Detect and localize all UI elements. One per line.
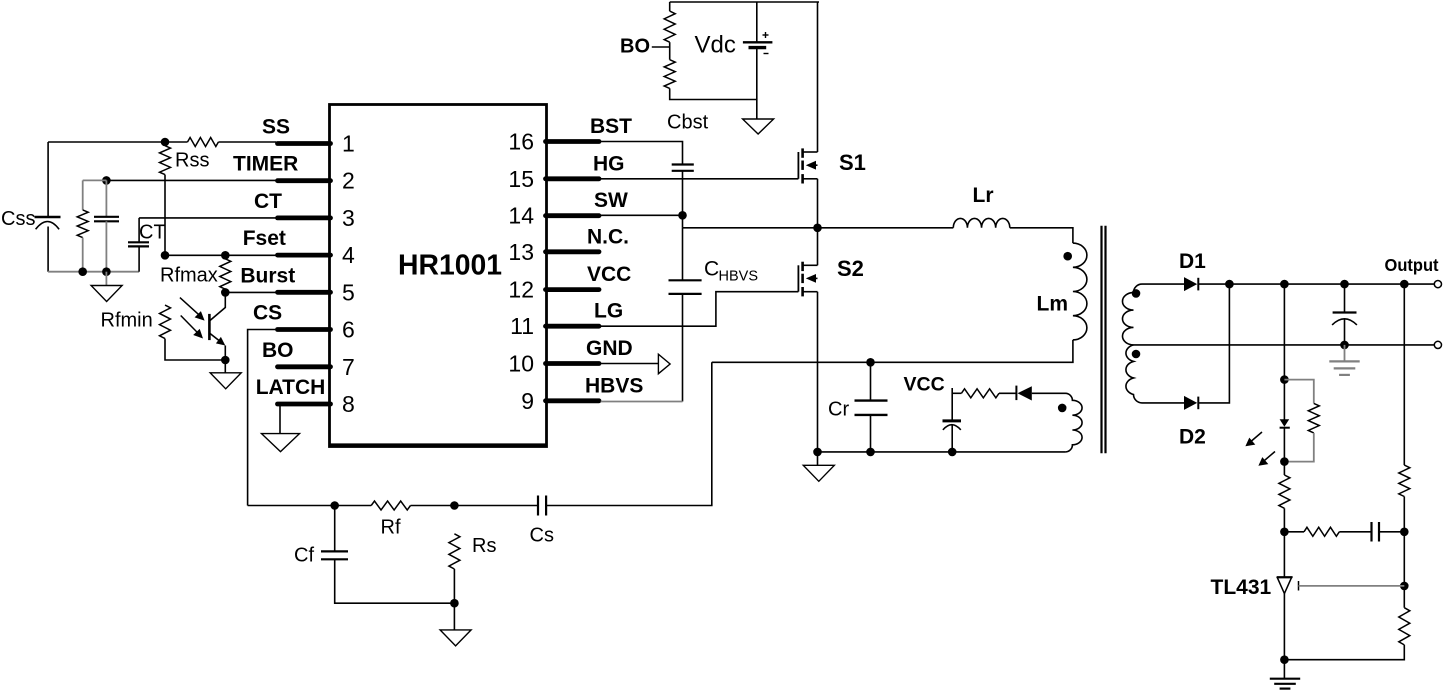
label Css [1, 208, 35, 230]
pin label LATCH [256, 376, 326, 399]
ground output (earth) [1329, 361, 1359, 375]
wire BST pin16 [601, 142, 683, 165]
node SS junction [161, 138, 170, 147]
wire CT pin3 [139, 217, 276, 219]
optocoupler light arrow 2 [181, 316, 203, 339]
wire SS pin1 to Rss [218, 141, 276, 143]
svg-text:BST: BST [590, 115, 632, 138]
label Rf [381, 517, 401, 539]
wire TIMER cap branch lower [105, 221, 107, 271]
label Cbst [667, 112, 709, 134]
node feedback divider top [1400, 280, 1409, 289]
resistor feedback upper [1399, 465, 1410, 496]
node TIMER cap to rail [102, 267, 111, 276]
pin 10 stub (GND) [546, 361, 600, 366]
wire Rss bottom to Fset node [164, 175, 166, 256]
pin 7 stub (BO) [278, 364, 331, 369]
resistor Rf [371, 501, 410, 510]
wire TIMER resistor branch upper [82, 180, 84, 210]
capacitor Cs plates [538, 496, 546, 516]
wire HG pin15 to S1 gate [601, 178, 799, 180]
IC U1 name label HR1001 [398, 250, 502, 282]
pin 2 stub (TIMER) [278, 178, 331, 183]
pin 5 stub (Burst) [278, 290, 331, 295]
wire center tap rail [1134, 344, 1435, 346]
inductor Lm (primary winding) [1073, 243, 1087, 340]
pin 6 stub (CS) [278, 327, 331, 332]
capacitor CHBVS plates [669, 280, 702, 294]
node secondary phase dot upper [1132, 289, 1141, 298]
pin label Burst [240, 264, 295, 287]
svg-text:4: 4 [342, 242, 355, 268]
svg-text:TIMER: TIMER [233, 153, 298, 176]
inductor aux winding [1065, 393, 1082, 452]
svg-text:Rfmin: Rfmin [101, 310, 153, 332]
wire S2 drain up [817, 228, 819, 265]
pin 15 number [508, 166, 534, 192]
svg-text:HR1001: HR1001 [398, 250, 502, 282]
pin 3 stub (CT) [278, 215, 331, 220]
capacitor CT plates [128, 242, 149, 246]
wire TIMER resistor branch lower [82, 238, 84, 272]
wire comp cap to divider [1379, 531, 1404, 533]
resistor Rfmax [220, 259, 231, 289]
ground arrow GND pin10 [658, 354, 670, 374]
pin 5 number [342, 279, 355, 305]
svg-text:2: 2 [342, 168, 355, 194]
wire S1 source down [817, 179, 819, 228]
battery Vdc top wire [756, 2, 758, 42]
wire LG pin11 to S2 gate [601, 292, 799, 327]
wire GND pin10 [601, 363, 659, 365]
wire TIMER pin2 [106, 179, 276, 181]
svg-text:9: 9 [521, 388, 534, 414]
pin 10 number [508, 351, 534, 377]
pin 3 number [342, 205, 355, 231]
pin label GND [586, 337, 633, 360]
svg-text:LG: LG [594, 300, 623, 323]
pin 14 number [508, 203, 534, 229]
node half-bridge midpoint [813, 224, 822, 233]
svg-text:3: 3 [342, 205, 355, 231]
wire SW down to half-bridge rail [682, 215, 684, 228]
wire output cap lower [1344, 319, 1346, 345]
wire LED branch upper [1283, 284, 1285, 380]
wire Burst pin5 [225, 291, 276, 293]
pin 13 stub (N.C.) [546, 249, 600, 254]
svg-text:C: C [704, 258, 719, 281]
pin 11 stub (LG) [546, 324, 600, 329]
wire opto emitter to ground [224, 360, 226, 373]
pin 4 number [342, 242, 355, 268]
svg-text:12: 12 [508, 277, 534, 303]
label VCC [904, 374, 945, 396]
node LED bottom [1280, 457, 1289, 466]
wire output cap ground stub [1344, 345, 1346, 362]
transistor S1 (high-side MOSFET) [798, 148, 817, 183]
resistor LED series [1279, 475, 1290, 508]
pin label Fset [243, 227, 286, 250]
node Cr top [866, 358, 875, 367]
pin label BST [590, 115, 632, 138]
svg-text:Burst: Burst [240, 264, 295, 287]
node opto emitter [221, 356, 230, 365]
label S1 [839, 150, 866, 175]
wire TL431 cathode [1283, 532, 1285, 577]
pin 1 number [342, 131, 355, 157]
label TL431 [1211, 576, 1272, 599]
svg-text:16: 16 [508, 129, 534, 155]
wire divider bottom [670, 88, 757, 99]
node LED top [1280, 375, 1289, 384]
svg-text:Vdc: Vdc [695, 32, 736, 59]
node Burst [221, 288, 230, 297]
pin label HG [593, 152, 625, 175]
label CT [139, 222, 166, 244]
capacitor VCC plates [943, 421, 962, 430]
wire divider mid [1403, 497, 1405, 586]
svg-text:CS: CS [253, 302, 282, 325]
pin 9 number [521, 388, 534, 414]
svg-text:11: 11 [510, 313, 534, 339]
optocoupler Q1 emitter [209, 333, 225, 360]
node Lm phase dot [1063, 252, 1072, 261]
svg-text:6: 6 [342, 317, 355, 343]
wire LED series resistor leads [1283, 462, 1285, 532]
wire ground stub left rail [105, 272, 107, 286]
label Lm [1037, 293, 1069, 316]
pin label TIMER [233, 153, 298, 176]
svg-text:Rfmax: Rfmax [160, 265, 218, 287]
svg-text:Lr: Lr [973, 184, 994, 207]
transformer core lines [1102, 226, 1106, 453]
svg-text:1: 1 [342, 131, 355, 157]
pin 11 number [510, 313, 534, 339]
svg-text:8: 8 [342, 391, 355, 417]
pin label CS [253, 302, 282, 325]
capacitor output plates [1332, 313, 1357, 325]
pin label SS [262, 116, 290, 139]
svg-text:Lm: Lm [1037, 293, 1069, 316]
label Output [1385, 255, 1439, 275]
svg-text:Cbst: Cbst [667, 112, 709, 134]
wire Cf upper [334, 506, 336, 552]
label BO [620, 36, 650, 58]
IC U1 bottom border [330, 443, 547, 447]
resistor BO divider lower [664, 60, 675, 89]
pin 13 number [508, 239, 534, 265]
node output cap bottom [1340, 341, 1349, 350]
label Cr [828, 399, 849, 421]
wire CHBVS to HBVS pin9 [682, 294, 684, 402]
wire Cr lower [870, 415, 872, 452]
svg-text:D1: D1 [1179, 250, 1206, 273]
wire CT cap to rail [138, 246, 140, 271]
wire divider top stub [669, 2, 671, 11]
wire TIMER cap branch upper [105, 180, 107, 216]
wire divider lower leads [1284, 586, 1404, 660]
svg-text:SS: SS [262, 116, 290, 139]
wire Rs lower [453, 569, 455, 603]
node output cap top [1340, 280, 1349, 289]
pin 9 stub (HBVS) [546, 398, 600, 403]
secondary winding lower [1126, 345, 1142, 403]
capacitor compensation plates [1372, 522, 1380, 542]
pin label BO [262, 339, 294, 362]
capacitor Css plates [35, 217, 61, 229]
svg-text:N.C.: N.C. [587, 225, 629, 248]
wire S1 drain up [817, 2, 819, 152]
svg-text:5: 5 [342, 279, 355, 305]
label Cs [530, 525, 554, 547]
svg-text:Cr: Cr [828, 399, 849, 421]
pin 1 stub (SS) [278, 141, 331, 146]
resistor compensation [1304, 527, 1339, 536]
node Fset left [161, 251, 170, 260]
wire BO stub [652, 46, 670, 48]
wire primary ground rail [818, 451, 1066, 453]
battery Vdc plus sign [763, 32, 769, 38]
label S2 [837, 256, 864, 281]
ground Rs [440, 630, 471, 646]
diode VCC rectifier [1016, 386, 1065, 401]
wire TL431 ref [1299, 585, 1405, 587]
pin label HBVS [585, 374, 643, 397]
label Rfmax [160, 265, 218, 287]
svg-text:13: 13 [508, 239, 534, 265]
pin 14 stub (SW) [546, 213, 600, 218]
pin label N.C. [587, 225, 629, 248]
svg-text:Rss: Rss [175, 150, 209, 172]
svg-text:CT: CT [254, 190, 282, 213]
svg-text:Rf: Rf [381, 517, 401, 539]
wire TIMER branch tee [83, 179, 107, 181]
node TL431 anode ground [1280, 655, 1289, 664]
node divider ref [1400, 582, 1409, 591]
secondary winding upper [1122, 284, 1142, 345]
wire half-bridge mid rail [683, 227, 954, 229]
pin 2 number [342, 168, 355, 194]
wire output rail [1198, 283, 1434, 285]
inductor Lr [953, 218, 1010, 227]
wire Fset pin4 [165, 254, 276, 256]
svg-text:15: 15 [508, 166, 534, 192]
IC U1 HR1001 body [330, 105, 547, 447]
svg-text:CT: CT [139, 222, 166, 244]
node TIMER resistor to rail [78, 267, 87, 276]
resistor Rfmin [160, 305, 171, 339]
node TIMER junction [102, 176, 111, 185]
wire S2 source down [817, 292, 819, 452]
terminal output positive [1434, 281, 1441, 288]
wire Lm bottom to Cr rail [712, 340, 1073, 362]
wire Lr to Lm top [1010, 228, 1073, 243]
wire LED parallel branch lower [1284, 433, 1313, 462]
pin 15 stub (HG) [546, 176, 600, 181]
resistor LED parallel [1308, 403, 1319, 433]
transistor S2 (low-side MOSFET) [798, 262, 817, 297]
capacitor Cr plates [855, 401, 888, 415]
svg-text:BO: BO [620, 36, 650, 58]
node Cr bottom [866, 448, 875, 457]
node secondary phase dot lower (center tap) [1132, 350, 1141, 359]
label Rss [175, 150, 209, 172]
pin 12 number [508, 277, 534, 303]
resistor VCC aux [961, 389, 999, 398]
resistor feedback lower [1399, 608, 1410, 645]
wire Rfmin bottom [165, 339, 225, 360]
resistor Rss vertical (SS node down) [160, 146, 171, 175]
wire TL431 ground stub [1283, 660, 1285, 679]
capacitor Cf plates [321, 551, 348, 559]
wire D2 to D1 junction [1198, 284, 1229, 403]
svg-text:GND: GND [586, 337, 633, 360]
svg-text:HBVS: HBVS [585, 374, 643, 397]
svg-text:Output: Output [1385, 255, 1439, 275]
node Cf top [330, 501, 339, 510]
label Cf [294, 545, 314, 567]
battery Vdc minus sign [764, 53, 769, 55]
ground opto [210, 373, 241, 389]
resistor BO divider upper [664, 11, 675, 42]
wire Cr upper [870, 362, 872, 400]
svg-text:Rs: Rs [472, 535, 496, 557]
wire secondary top to D1 [1142, 283, 1184, 285]
node Rs bottom [450, 599, 459, 608]
resistor Rss horizontal on SS line [188, 138, 219, 147]
node LED branch top [1280, 280, 1289, 289]
pin label LG [594, 300, 623, 323]
wire VCC node [951, 388, 953, 421]
pin label VCC [587, 263, 631, 286]
pin 7 number [342, 354, 355, 380]
wire SW pin14 [601, 214, 683, 216]
pin 16 number [508, 129, 534, 155]
optocoupler light arrow 1 [180, 298, 205, 321]
optocoupler Q1 collector [209, 292, 225, 321]
svg-text:VCC: VCC [904, 374, 945, 396]
label CHBVS [704, 258, 758, 285]
wire Cbst to SW [682, 171, 684, 216]
label Lr [973, 184, 994, 207]
wire Vdc top rail [670, 1, 819, 3]
battery Vdc plates [743, 42, 773, 47]
pin 16 stub (BST) [546, 139, 600, 144]
wire CS pin6 down [248, 330, 276, 506]
svg-text:HBVS: HBVS [719, 269, 759, 285]
wire Rf to Cs [411, 505, 539, 507]
wire Rs bottom to ground [453, 603, 455, 630]
capacitor TIMER-GND plates [94, 217, 119, 222]
node S2 source ground [813, 448, 822, 457]
optocoupler transistor Q1 base bar [208, 314, 211, 340]
svg-text:7: 7 [342, 354, 355, 380]
svg-text:LATCH: LATCH [256, 376, 326, 399]
terminal output return [1434, 341, 1441, 348]
wire LATCH pin8 to ground [279, 404, 281, 434]
wire CS filter rail left [248, 505, 372, 507]
pin 4 stub (Fset) [278, 253, 331, 258]
node Fset Rfmax top [221, 251, 230, 260]
wire VCC resistor lead [952, 392, 961, 394]
svg-text:S2: S2 [837, 256, 864, 281]
wire Cf lower [335, 559, 455, 603]
svg-text:TL431: TL431 [1211, 576, 1272, 599]
wire feedback divider upper [1403, 284, 1405, 465]
svg-text:BO: BO [262, 339, 294, 362]
wire SS node segment [48, 141, 187, 143]
pin label SW [594, 189, 628, 212]
wire CT down to cap [138, 218, 140, 242]
svg-text:SW: SW [594, 189, 628, 212]
svg-text:Css: Css [1, 208, 35, 230]
shunt regulator TL431 [1277, 577, 1299, 593]
wire Cs to riser [546, 362, 712, 505]
label D1 [1179, 250, 1206, 273]
svg-text:Cf: Cf [294, 545, 314, 567]
ground primary [803, 465, 834, 481]
svg-text:S1: S1 [839, 150, 866, 175]
pin 6 number [342, 317, 355, 343]
wire secondary bottom to D2 [1142, 402, 1184, 404]
svg-text:Fset: Fset [243, 227, 286, 250]
LED optocoupler diode [1280, 380, 1290, 462]
node VCC cap ground [948, 448, 957, 457]
ground left network [91, 286, 122, 302]
resistor Rs [449, 534, 460, 569]
label Rfmin [101, 310, 153, 332]
pin 12 stub (VCC) [546, 287, 600, 292]
ground LATCH [262, 434, 300, 452]
wire SW node down to CHBVS [682, 228, 684, 280]
node D1 D2 junction [1225, 280, 1234, 289]
node SW junction [678, 211, 687, 220]
label Rs [472, 535, 496, 557]
node Rs top [450, 501, 459, 510]
wire S2 ground stub [817, 452, 819, 465]
wire BO node [669, 42, 671, 60]
svg-text:Cs: Cs [530, 525, 554, 547]
wire output cap upper [1344, 284, 1346, 312]
diode D2 [1184, 396, 1198, 410]
wire VCC cap lower [951, 425, 953, 452]
pin 8 number [342, 391, 355, 417]
label Vdc [695, 32, 736, 59]
wire Css bottom [48, 227, 139, 272]
LED light arrow 1 [1245, 432, 1262, 446]
node aux winding phase dot [1058, 404, 1067, 413]
ground TL431 (earth) [1270, 679, 1300, 689]
pin 8 stub (LATCH) [278, 402, 331, 407]
wire resistor to diode [999, 392, 1016, 394]
LED light arrow 2 [1258, 452, 1275, 466]
capacitor Cbst plates [672, 165, 694, 171]
pin label CT [254, 190, 282, 213]
svg-text:VCC: VCC [587, 263, 631, 286]
capacitor Css top wire [47, 142, 49, 217]
wire HBVS pin9 [601, 401, 683, 403]
svg-text:10: 10 [508, 351, 534, 377]
battery Vdc bottom wire [756, 48, 758, 119]
diode D1 [1184, 277, 1198, 291]
wire LED parallel branch [1284, 380, 1313, 404]
node compensation right [1400, 528, 1409, 537]
wire comp resistor leads [1284, 531, 1371, 533]
svg-text:D2: D2 [1179, 426, 1206, 449]
resistor TIMER-GND [77, 210, 88, 238]
node compensation left [1280, 528, 1289, 537]
svg-text:14: 14 [508, 203, 534, 229]
